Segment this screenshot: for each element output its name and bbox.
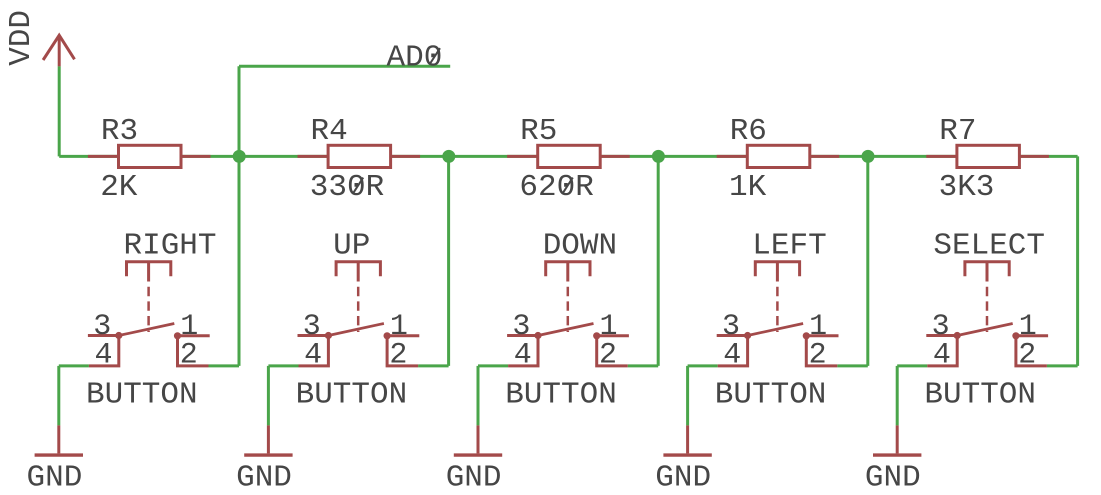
svg-text:2: 2 <box>599 339 617 373</box>
svg-text:620R: 620R <box>519 170 593 205</box>
svg-text:R3: R3 <box>101 114 138 149</box>
resistor R7 <box>926 145 1049 167</box>
wire to button SELECT pin 2 <box>1047 364 1078 367</box>
svg-text:RIGHT: RIGHT <box>124 229 217 264</box>
junction node 2 <box>442 150 455 163</box>
pushbutton S1 RIGHT <box>88 262 210 366</box>
svg-text:4: 4 <box>95 339 113 373</box>
ground symbol GND5 <box>873 425 921 455</box>
svg-text:4: 4 <box>304 339 322 373</box>
wire button SELECT pin 4 to GND drop <box>897 364 927 367</box>
wire net AD0 horizontal <box>239 65 450 68</box>
resistor R5 <box>507 145 630 167</box>
wire net AD0 vertical from node 1 <box>238 66 241 156</box>
svg-text:R6: R6 <box>730 114 767 149</box>
junction node 4 <box>862 150 875 163</box>
svg-text:SELECT: SELECT <box>933 229 1045 264</box>
ground symbol GND4 <box>663 425 711 455</box>
svg-text:BUTTON: BUTTON <box>505 377 617 412</box>
junction node 1 <box>233 150 246 163</box>
ground symbol GND2 <box>244 425 292 455</box>
pushbutton S3 DOWN <box>507 262 629 366</box>
wire button RIGHT pin 4 to GND drop <box>59 364 89 367</box>
pushbutton S5 SELECT <box>926 262 1048 366</box>
svg-text:GND: GND <box>865 461 921 495</box>
svg-text:BUTTON: BUTTON <box>715 377 827 412</box>
ground symbol GND3 <box>454 425 502 455</box>
slash of zero in value <box>563 178 573 194</box>
wire to button LEFT pin 2 <box>837 364 868 367</box>
svg-text:UP: UP <box>333 229 370 264</box>
wire GND drop vertical <box>686 366 689 426</box>
svg-text:BUTTON: BUTTON <box>296 377 408 412</box>
svg-text:GND: GND <box>655 461 711 495</box>
svg-text:LEFT: LEFT <box>752 229 826 264</box>
wire GND drop vertical <box>57 366 60 426</box>
svg-text:330R: 330R <box>310 170 384 205</box>
svg-text:2: 2 <box>809 339 827 373</box>
wire button LEFT pin 4 to GND drop <box>688 364 718 367</box>
svg-text:BUTTON: BUTTON <box>924 377 1036 412</box>
slash of zero in value <box>353 178 363 194</box>
ground symbol GND1 <box>35 425 83 455</box>
wire node 1 down to button RIGHT <box>238 156 241 366</box>
resistor R3 <box>88 145 211 167</box>
svg-text:2: 2 <box>180 339 198 373</box>
svg-text:GND: GND <box>446 461 502 495</box>
svg-text:BUTTON: BUTTON <box>86 377 198 412</box>
wire button UP pin 4 to GND drop <box>268 364 298 367</box>
svg-text:R5: R5 <box>520 114 557 149</box>
svg-text:1K: 1K <box>729 170 767 205</box>
wire to button DOWN pin 2 <box>628 364 659 367</box>
wire GND drop vertical <box>267 366 270 426</box>
wire node 2 down to button UP <box>447 156 450 366</box>
wire main bus horizontal <box>59 155 1077 158</box>
svg-text:VDD: VDD <box>4 10 39 66</box>
wire GND drop vertical <box>896 366 899 426</box>
wire VDD stem to bus <box>58 66 61 156</box>
svg-text:4: 4 <box>514 339 532 373</box>
wire GND drop vertical <box>477 366 480 426</box>
junction node 3 <box>652 150 665 163</box>
wire to button UP pin 2 <box>418 364 449 367</box>
svg-text:2: 2 <box>1018 339 1036 373</box>
wire node 5 down to button SELECT <box>1076 156 1079 366</box>
wire to button RIGHT pin 2 <box>209 364 240 367</box>
svg-text:3K3: 3K3 <box>939 170 995 205</box>
resistor R6 <box>717 145 840 167</box>
wire button DOWN pin 4 to GND drop <box>478 364 508 367</box>
svg-text:DOWN: DOWN <box>543 229 617 264</box>
svg-text:2K: 2K <box>100 170 138 205</box>
resistor R4 <box>298 145 421 167</box>
power symbol VDD (arrow) <box>43 35 74 66</box>
pushbutton S2 UP <box>298 262 420 366</box>
svg-text:GND: GND <box>236 461 292 495</box>
svg-text:4: 4 <box>933 339 951 373</box>
svg-text:4: 4 <box>723 339 741 373</box>
pushbutton S4 LEFT <box>717 262 839 366</box>
svg-text:R4: R4 <box>311 114 348 149</box>
wire node 4 down to button LEFT <box>866 156 869 366</box>
slash of zero in AD0 <box>430 48 440 64</box>
svg-text:R7: R7 <box>939 114 976 149</box>
wire node 3 down to button DOWN <box>657 156 660 366</box>
svg-text:GND: GND <box>27 461 83 495</box>
svg-text:2: 2 <box>389 339 407 373</box>
